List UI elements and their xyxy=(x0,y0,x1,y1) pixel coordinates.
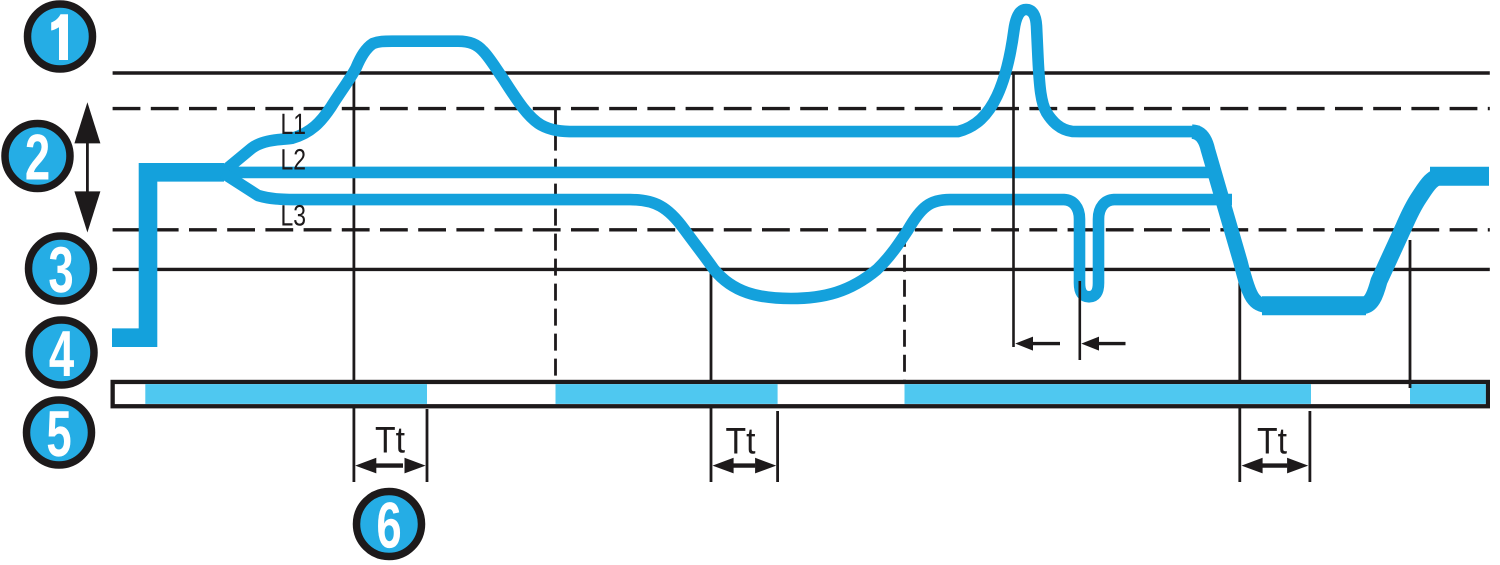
vertical marker line 3 (x=1240) xyxy=(1238,269,1241,482)
svg-text:2: 2 xyxy=(25,121,50,194)
availability bar outline xyxy=(113,382,1488,406)
left arrow at dip marker xyxy=(1081,337,1125,351)
lower solid limit line xyxy=(113,268,1490,271)
bar cyan segment 4 xyxy=(1410,384,1486,404)
waveform final nominal flat xyxy=(1430,167,1489,186)
svg-text:4: 4 xyxy=(49,317,74,390)
callout circle 1 xyxy=(28,4,93,69)
svg-text:6: 6 xyxy=(376,489,401,562)
vertical marker at final rise (x=1410) xyxy=(1409,240,1412,388)
waveform L3 trace (sag, dip) xyxy=(223,173,1232,299)
svg-text:Tt: Tt xyxy=(375,420,406,461)
lower dashed limit line xyxy=(113,228,1490,231)
bar cyan segment 3 xyxy=(905,384,1312,404)
upper dashed limit line xyxy=(113,107,1490,110)
svg-text:L2: L2 xyxy=(281,144,307,177)
callout circle 3 xyxy=(29,233,94,306)
callout circle 2 xyxy=(5,121,70,194)
upper solid limit line xyxy=(113,71,1490,74)
vertical marker line 1 (x=354) xyxy=(352,73,355,482)
waveform merged drop diagonal xyxy=(1192,132,1271,306)
Tt bracket right line 3 (x=1310) xyxy=(1309,411,1312,482)
waveform interruption low flat xyxy=(1262,296,1366,315)
vertical dashed marker (x=905) xyxy=(903,230,906,382)
svg-text:3: 3 xyxy=(48,233,73,306)
callout circle 5 xyxy=(27,397,92,470)
bar cyan segment 2 xyxy=(556,384,778,404)
waveform L2 trace (nominal) xyxy=(222,167,1220,179)
callout circle 6 xyxy=(357,489,422,562)
short vertical marker at dip (x=1080) xyxy=(1079,281,1082,360)
waveform recovery rise diagonal xyxy=(1362,176,1442,306)
svg-text:L1: L1 xyxy=(281,108,307,141)
Tt bracket right line 1 (x=427) xyxy=(426,409,429,482)
svg-text:L3: L3 xyxy=(281,200,307,233)
waveform trunk (left start) xyxy=(112,172,224,337)
svg-text:Tt: Tt xyxy=(1257,421,1288,462)
Tt double arrow 2 xyxy=(713,458,777,474)
svg-text:5: 5 xyxy=(46,397,71,470)
Tt bracket right line 2 (x=778) xyxy=(776,411,779,482)
Tt double arrow 1 xyxy=(355,458,425,474)
vertical double arrow beside circle 2 xyxy=(74,102,100,232)
callout circle 4 xyxy=(29,317,94,390)
waveform L1 trace (swell, spike) xyxy=(223,10,1200,173)
vertical dashed marker (x=556) xyxy=(554,109,557,382)
vertical marker line 2 (x=711) xyxy=(710,269,713,482)
bar cyan segment 1 xyxy=(145,384,427,404)
left arrow at spike marker xyxy=(1015,337,1060,351)
Tt double arrow 3 xyxy=(1242,458,1309,474)
short vertical marker at spike (x=1013) xyxy=(1012,73,1015,347)
svg-text:Tt: Tt xyxy=(726,421,757,462)
